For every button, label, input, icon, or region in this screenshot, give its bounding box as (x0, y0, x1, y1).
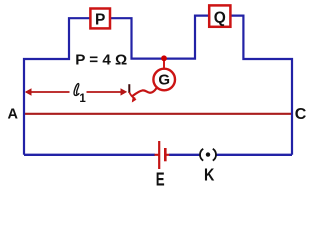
jockey arrow pointing to bridge wire (129, 92, 134, 101)
battery E: long positive plate (158, 141, 160, 169)
svg-text:K: K (204, 165, 215, 185)
dimension arrow l1 (left part) (26, 91, 70, 93)
wire: bottom segment from key K to right corner (216, 154, 292, 156)
jockey contact tick (128, 84, 130, 93)
svg-text:P: P (95, 11, 105, 28)
wire: flexible lead from galvanometer to jockey (red squiggle) (133, 88, 157, 96)
dimension arrow l1 right arrowhead (121, 88, 128, 95)
wire: red lead from junction down to galvanometer (163, 58, 165, 69)
node junction dot on top wire (161, 55, 167, 61)
wire: outer loop with P and Q branch bumps (blue) (24, 16, 292, 155)
galvanometer G (153, 69, 175, 91)
dimension arrow l1 (right part) (87, 91, 126, 93)
key K: right parenthesis arc (213, 149, 216, 161)
wire: bottom segment from left corner to battery (24, 154, 155, 156)
bridge wire A-C (red) (25, 113, 291, 115)
key K: contact dot (206, 152, 210, 156)
resistor P (red box) (90, 9, 110, 29)
resistor Q (red box) (209, 5, 230, 26)
svg-text:C: C (295, 106, 307, 123)
battery E: short negative plate (164, 148, 167, 161)
label l1 (script ell with subscript 1) (74, 84, 86, 105)
svg-text:P = 4 Ω: P = 4 Ω (75, 51, 127, 68)
wire: bottom segment between battery and key K (169, 154, 200, 156)
svg-text:E: E (156, 170, 165, 191)
svg-text:A: A (8, 107, 19, 123)
svg-text:1: 1 (79, 93, 86, 105)
wire: red stub out of battery negative plate (166, 154, 170, 156)
svg-text:Q: Q (214, 9, 226, 26)
wire: red stub into battery positive plate (155, 154, 159, 156)
dimension arrow l1 left arrowhead (25, 88, 32, 95)
svg-text:G: G (158, 72, 170, 89)
key K: left parenthesis arc (200, 149, 203, 161)
